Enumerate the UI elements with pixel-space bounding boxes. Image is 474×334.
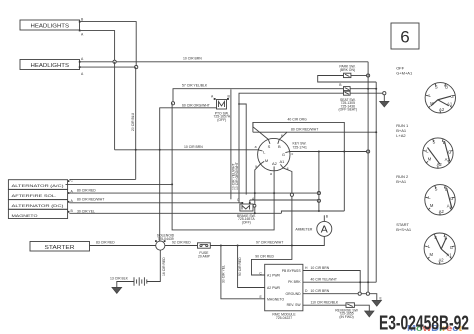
wire 80 CIR RED/WHT alternator DC row to brake switch — [69, 197, 242, 202]
svg-text:S: S — [268, 144, 271, 149]
ground symbol battery — [112, 287, 122, 293]
svg-text:40 CIR ORG: 40 CIR ORG — [288, 118, 308, 122]
PTO switch PTO SW. 725-1657A (OFF) — [211, 95, 231, 122]
module box RMC MODULE 725-04227 — [259, 264, 303, 320]
wire seat bottom pin segment — [350, 92, 384, 94]
wire long ground vertical from 10 CIR BRN — [367, 62, 369, 294]
wire 57 CIR YEL/BLK — [173, 84, 344, 104]
node dot 368.1,88.2 — [367, 88, 369, 90]
node connector circle at 173,103.3 — [171, 102, 174, 105]
ground symbol top right — [380, 95, 389, 107]
wire seat top pin segment — [350, 88, 376, 90]
wire REV. SW 110 CIR RED/BLK — [303, 301, 346, 306]
node connector circle 291.9,193 — [290, 193, 293, 196]
ground symbol reverse switch — [365, 311, 374, 317]
svg-text:M: M — [430, 252, 434, 257]
svg-text:110 CIR RED/BLK: 110 CIR RED/BLK — [311, 301, 339, 305]
node dot 360.2,282.2 — [359, 281, 361, 283]
node dot 172.1,184.4 — [171, 183, 173, 185]
svg-text:MAGNETO: MAGNETO — [12, 213, 38, 218]
node dot 376.2,132.2 — [375, 131, 377, 133]
wire ammeter top stub pin B — [324, 214, 329, 221]
wire h8 seat return from vertical x239 — [239, 93, 344, 104]
node dot at 159.5,149.8 — [159, 149, 161, 151]
node dot 220.9,245.5 — [220, 245, 222, 247]
node dot 291.9,245.5 — [291, 245, 293, 247]
wire vertical from headlight junction down to 10 CIR BRN line — [114, 62, 116, 150]
key position label OFF — [396, 66, 413, 76]
node connector circle 368.1,151.5 — [367, 150, 370, 153]
svg-text:6: 6 — [400, 28, 409, 47]
node junction circle at 114.6,61.8 — [113, 60, 116, 63]
wire long vertical park/seat to PK BRK — [375, 82, 377, 282]
svg-text:B+S+A1: B+S+A1 — [396, 227, 412, 232]
reverse switch REVERSE SW 725-1655 (IN FWD) — [335, 303, 358, 319]
svg-text:20 CIR BLU: 20 CIR BLU — [131, 112, 135, 131]
key switch KEY SW. 725-1741 — [258, 138, 307, 170]
svg-text:c: c — [292, 152, 294, 156]
node dot 376.2,88.7 — [375, 88, 377, 90]
svg-text:MAGNETO: MAGNETO — [267, 297, 284, 301]
svg-text:M: M — [428, 157, 432, 162]
key switch terminal A2 — [272, 161, 278, 171]
wire solenoid down to battery — [147, 250, 166, 281]
svg-text:G: G — [450, 196, 453, 201]
svg-text:REV. SW: REV. SW — [287, 303, 302, 307]
key position diagram RUN 2 circle — [425, 185, 455, 215]
key switch terminal A1 — [279, 159, 285, 168]
svg-text:AMMETER: AMMETER — [295, 227, 313, 231]
svg-text:B+A1: B+A1 — [396, 179, 407, 184]
svg-text:HEADLIGHTS: HEADLIGHTS — [31, 24, 70, 30]
key switch terminal L — [258, 150, 266, 155]
svg-text:G+M+A1: G+M+A1 — [396, 71, 413, 76]
watermark colored logo — [407, 323, 462, 333]
battery cells — [134, 277, 147, 285]
node junction circle at 136.2,67.1 — [135, 66, 138, 69]
wire A2 PWR riser to module — [238, 246, 265, 288]
svg-text:20 AMP: 20 AMP — [198, 255, 211, 259]
wire vertical x230.9 — [230, 89, 232, 199]
node dot 318.9,211 — [318, 210, 320, 212]
node connector circle 359.7,293.7 — [358, 292, 361, 295]
key position label RUN 1 — [396, 123, 409, 138]
wire 92 CIR RED solenoid to fuse — [165, 241, 198, 246]
wire 30 CIR YEL magneto row — [69, 209, 281, 213]
alternator (A/C) box — [8, 178, 73, 189]
svg-text:57 CIR YEL/BLK: 57 CIR YEL/BLK — [182, 84, 208, 88]
svg-text:10 CIR BRN: 10 CIR BRN — [311, 289, 330, 293]
afterfire solenoid box — [8, 189, 73, 199]
key switch terminal S — [268, 139, 271, 149]
svg-text:G: G — [450, 245, 453, 250]
wire 30 CIR YEL riser to module magneto pin — [221, 246, 265, 299]
node dot 318.9,151.5 — [318, 151, 320, 153]
solenoid SOLENOID 725-04439 — [155, 234, 175, 251]
ammeter circle — [295, 221, 331, 236]
node dot M afterfire row crossing — [254, 192, 256, 194]
wire 80 CIR RED/WHT from key B — [253, 127, 376, 139]
callout box 6 — [391, 23, 419, 49]
key switch terminal B — [278, 139, 281, 149]
wire 60 CIR ORG/WHT to PTO switch — [160, 104, 217, 241]
wire A1 node down to battery feed — [291, 196, 293, 245]
svg-text:STARTER: STARTER — [45, 245, 75, 251]
wire headlight1 top pin to vertical — [81, 22, 137, 68]
svg-text:40 CIR YEL/WHT: 40 CIR YEL/WHT — [311, 278, 338, 282]
wire 83 CIR RED starter to solenoid — [90, 241, 156, 246]
wire 10 CIR BRN to key switch L — [115, 145, 259, 150]
svg-text:PB BYPASS: PB BYPASS — [282, 269, 302, 273]
svg-text:16 CIR RED: 16 CIR RED — [162, 257, 166, 276]
wire key M down to magneto row — [255, 164, 261, 213]
key switch pin letters — [255, 134, 294, 176]
magneto box — [8, 209, 73, 218]
wire magneto row jog to kill vertical — [281, 211, 344, 213]
node connector circle 318.9,193.1 — [317, 192, 320, 195]
wire alternator A/C row to 20 CIR BLU riser — [69, 178, 135, 180]
svg-text:10 CIR BRN: 10 CIR BRN — [184, 145, 203, 149]
svg-text:a: a — [270, 172, 272, 176]
wire 40 CIR ORG from key S — [253, 118, 344, 211]
key position diagram RUN 1 circle — [423, 138, 453, 168]
wire headlight1 bottom pin to vertical — [81, 31, 115, 62]
key position diagram START circle — [424, 233, 455, 264]
wire ammeter bottom to main feed — [292, 236, 324, 245]
svg-text:a: a — [255, 145, 257, 149]
alternator (DC) box — [8, 199, 73, 209]
svg-text:AFTERFIRE SOL.: AFTERFIRE SOL. — [12, 193, 57, 198]
wire PB BYPASS 10 CIR BRN — [303, 266, 360, 294]
node connector circle park 368.1,75.5 — [367, 74, 370, 77]
wire key G to right circle — [290, 151, 368, 153]
svg-text:M: M — [430, 203, 434, 208]
park switch PARK SW. (BRK ON) — [339, 65, 355, 78]
wire key A2 down and left to PTO feed riser — [172, 103, 274, 230]
svg-text:ALTERNATOR (A/C): ALTERNATOR (A/C) — [12, 183, 65, 188]
svg-text:80 CIR RED/WHT: 80 CIR RED/WHT — [291, 127, 318, 131]
wire PK BRK 40 CIR YEL/WHT — [303, 278, 376, 283]
wire GROUND 10 CIR BRN to ground — [303, 289, 377, 300]
svg-text:90 CIR RED: 90 CIR RED — [255, 255, 274, 259]
starter box — [30, 242, 90, 252]
svg-text:A2 PWR: A2 PWR — [267, 286, 281, 290]
svg-text:B: B — [445, 85, 448, 90]
key switch terminal M — [261, 158, 269, 164]
wire branch x246 — [239, 104, 246, 195]
svg-text:83 CIR RED: 83 CIR RED — [96, 241, 115, 245]
svg-text:(OFF): (OFF) — [242, 221, 251, 225]
svg-text:(OFF SEAT): (OFF SEAT) — [339, 108, 358, 112]
node dot A2 row crossing — [273, 192, 275, 194]
svg-text:92 CIR RED: 92 CIR RED — [172, 241, 191, 245]
svg-text:90 CIR RED: 90 CIR RED — [238, 257, 242, 276]
svg-text:10 CIR BRN: 10 CIR BRN — [311, 266, 330, 270]
wire reverse switch to ground — [354, 305, 369, 311]
svg-text:E3-02458B-92: E3-02458B-92 — [379, 312, 469, 334]
ground symbol module E — [372, 297, 382, 307]
wire key A1 down to 80 CIR RED node — [283, 168, 292, 193]
node dot at 135.7,149.8 — [135, 149, 137, 151]
svg-text:B: B — [278, 144, 281, 149]
wire 13 CIR BLK battery to ground — [110, 277, 134, 288]
wire kill circuit vertical — [318, 152, 320, 212]
svg-text:(OFF): (OFF) — [217, 118, 226, 122]
drawing number E3-02458B-92 — [379, 312, 469, 334]
wire 10 CIR BRN headlights feed — [81, 57, 369, 62]
svg-text:97 CIR RED/WHT: 97 CIR RED/WHT — [256, 241, 283, 245]
svg-text:13 CIR BLK: 13 CIR BLK — [110, 277, 129, 281]
seat switch SEAT SW. 725-1305 725-1436 (OFF SEAT) — [339, 83, 358, 112]
node dot 344.3,151.5 — [343, 151, 345, 153]
wire 90 CIR RED to module A1 PWR — [252, 246, 292, 276]
headlight lamp 2 box — [20, 57, 84, 76]
svg-text:L+A2: L+A2 — [396, 133, 406, 138]
svg-text:GROUND: GROUND — [286, 292, 302, 296]
key position label START — [396, 222, 412, 232]
svg-text:80 CIR RED/WHT: 80 CIR RED/WHT — [77, 197, 104, 201]
wire brake right pin to ammeter riser — [250, 199, 317, 201]
key position label RUN 2 — [396, 174, 409, 184]
wire alternator A/C return — [66, 183, 173, 185]
svg-text:(BRK ON): (BRK ON) — [340, 68, 355, 72]
wire 80 CIR RED afterfire row — [69, 188, 317, 193]
svg-text:A2: A2 — [272, 161, 278, 166]
node connector circle 367.9,293.7 — [366, 292, 369, 295]
svg-text:HEADLIGHTS: HEADLIGHTS — [31, 63, 70, 69]
svg-text:G: G — [282, 152, 285, 157]
node dot 368.1,282.2 — [367, 281, 369, 283]
svg-text:A1: A1 — [279, 159, 285, 164]
wire headlight2 bottom pin — [81, 66, 137, 68]
node connector circle right of brake 254.5,205.7 — [253, 204, 256, 207]
node connector circle 323.3,199.3 — [317, 199, 320, 202]
brake switch BRAKE SW. 725-1657A (OFF) — [237, 197, 256, 225]
svg-text:A1 PWR: A1 PWR — [267, 274, 281, 278]
fuse FUSE 20 AMP — [198, 243, 211, 259]
node dot 239,104 — [238, 103, 240, 105]
svg-text:30 CIR YEL: 30 CIR YEL — [77, 209, 95, 213]
svg-text:10 CIR ORG/WHT: 10 CIR ORG/WHT — [235, 162, 239, 190]
svg-text:A: A — [321, 224, 328, 236]
headlight lamp 1 box — [20, 17, 84, 36]
svg-text:PK BRK: PK BRK — [288, 280, 301, 284]
svg-text:ALTERNATOR (DC): ALTERNATOR (DC) — [12, 203, 65, 208]
svg-text:30 CIR YEL: 30 CIR YEL — [222, 265, 226, 283]
node dot M magneto row — [254, 212, 256, 214]
svg-text:725-04227: 725-04227 — [276, 316, 292, 320]
svg-text:80 CIR RED: 80 CIR RED — [77, 188, 96, 192]
wire 97 CIR RED/WHT fuse to ammeter — [210, 241, 292, 246]
svg-text:725-1741: 725-1741 — [293, 145, 307, 149]
svg-text:(IN FWD): (IN FWD) — [339, 315, 353, 319]
wire park switch right to node — [351, 75, 367, 77]
key switch terminal G — [282, 152, 290, 157]
node dot 237.6,245.5 — [237, 245, 239, 247]
node connector circle 384.3,93.2 — [383, 92, 386, 95]
svg-text:M: M — [265, 158, 268, 163]
wire park switch left loop — [318, 76, 377, 83]
svg-text:G: G — [448, 150, 451, 155]
wire vertical 20 CIR BLU — [131, 67, 136, 179]
svg-text:10 CIR BRN: 10 CIR BRN — [183, 57, 202, 61]
key position diagram OFF circle — [425, 83, 455, 113]
wire vertical x239 down to brake feed row — [238, 104, 240, 203]
wire S corner vertical — [252, 122, 254, 132]
svg-text:60 CIR ORG/WHT: 60 CIR ORG/WHT — [182, 104, 210, 108]
